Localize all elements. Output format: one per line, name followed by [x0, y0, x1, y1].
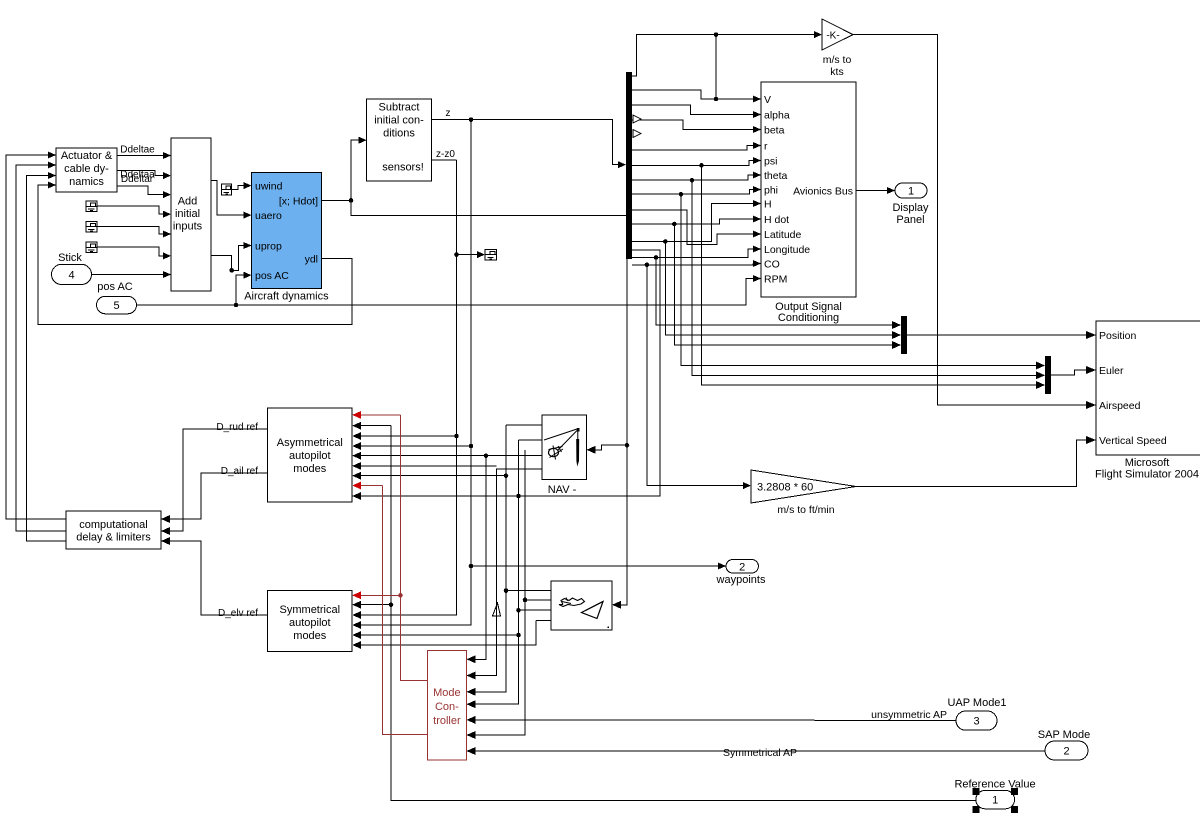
svg-text:waypoints: waypoints: [716, 574, 766, 586]
svg-text:Panel: Panel: [896, 214, 924, 226]
svg-text:Stick: Stick: [58, 252, 82, 264]
svg-text:Add: Add: [178, 196, 198, 208]
svg-text:troller: troller: [433, 715, 461, 727]
svg-text:phi: phi: [764, 185, 778, 197]
svg-text:Latitude: Latitude: [764, 229, 802, 241]
svg-text:pos AC: pos AC: [97, 281, 133, 293]
svg-text:1: 1: [908, 186, 914, 198]
svg-text:1: 1: [992, 795, 998, 807]
svg-text:alpha: alpha: [764, 110, 790, 122]
svg-text:Actuator &: Actuator &: [61, 150, 113, 162]
svg-text:z-z0: z-z0: [436, 149, 455, 160]
svg-text:theta: theta: [764, 170, 788, 182]
svg-text:D_rud ref: D_rud ref: [216, 422, 258, 433]
svg-text:D_ail ref: D_ail ref: [221, 466, 258, 477]
svg-text:psi: psi: [764, 156, 777, 168]
svg-text:Ddeltae: Ddeltae: [120, 145, 155, 156]
svg-text:Flight Simulator 2004: Flight Simulator 2004: [1095, 469, 1199, 481]
svg-text:SAP Mode: SAP Mode: [1038, 729, 1090, 741]
svg-text:autopilot: autopilot: [289, 450, 331, 462]
svg-text:m/s to ft/min: m/s to ft/min: [777, 504, 834, 516]
svg-text:r: r: [764, 141, 768, 153]
svg-text:Position: Position: [1099, 330, 1137, 342]
svg-text:H: H: [764, 199, 772, 211]
svg-text:2: 2: [1063, 746, 1069, 758]
svg-text:H dot: H dot: [764, 214, 789, 226]
svg-text:Symmetrical: Symmetrical: [280, 604, 341, 616]
svg-text:D_elv ref: D_elv ref: [218, 608, 258, 619]
svg-text:NAV -: NAV -: [548, 484, 577, 496]
svg-text:uwind: uwind: [255, 181, 283, 193]
svg-text:autopilot: autopilot: [289, 617, 331, 629]
svg-text:kts: kts: [830, 66, 843, 78]
svg-text:UAP Mode1: UAP Mode1: [947, 697, 1006, 709]
svg-text:m/s to: m/s to: [823, 54, 852, 66]
svg-text:CO: CO: [764, 259, 780, 271]
svg-text:Airspeed: Airspeed: [1099, 400, 1141, 412]
svg-text:3.2808 * 60: 3.2808 * 60: [757, 482, 813, 494]
svg-text:RPM: RPM: [764, 274, 787, 286]
svg-text:5: 5: [113, 300, 119, 312]
svg-text:Conditioning: Conditioning: [778, 312, 839, 324]
svg-text:Display: Display: [892, 202, 929, 214]
svg-text:Con-: Con-: [435, 701, 459, 713]
svg-text:-K-: -K-: [826, 31, 839, 42]
svg-text:Subtract: Subtract: [379, 102, 420, 114]
svg-text:Avionics Bus: Avionics Bus: [793, 186, 853, 198]
svg-text:delay & limiters: delay & limiters: [76, 532, 151, 544]
svg-text:pos AC: pos AC: [255, 270, 289, 282]
svg-text:initial: initial: [175, 208, 200, 220]
svg-text:Mode: Mode: [433, 687, 461, 699]
svg-text:ditions: ditions: [383, 128, 415, 140]
svg-text:3: 3: [973, 716, 979, 728]
svg-text:Symmetrical AP: Symmetrical AP: [723, 747, 797, 759]
svg-text:sensors!: sensors!: [382, 162, 424, 174]
svg-text:inputs: inputs: [173, 221, 203, 233]
svg-text:namics: namics: [69, 176, 104, 188]
svg-text:V: V: [764, 94, 771, 106]
svg-text:computational: computational: [79, 519, 148, 531]
svg-text:uprop: uprop: [255, 241, 282, 253]
svg-text:z: z: [446, 108, 451, 119]
svg-text:Asymmetrical: Asymmetrical: [277, 437, 343, 449]
svg-text:Reference Value: Reference Value: [954, 779, 1035, 791]
svg-text:initial con-: initial con-: [374, 115, 424, 127]
svg-text:4: 4: [68, 269, 74, 281]
svg-text:unsymmetric AP: unsymmetric AP: [871, 709, 947, 721]
svg-text:[x; Hdot]: [x; Hdot]: [279, 196, 318, 208]
svg-text:Longitude: Longitude: [764, 244, 810, 256]
svg-text:beta: beta: [764, 125, 785, 137]
svg-text:modes: modes: [293, 630, 327, 642]
svg-text:Ddeltar: Ddeltar: [121, 174, 154, 185]
svg-text:uaero: uaero: [255, 210, 282, 222]
svg-text:modes: modes: [293, 463, 327, 475]
svg-text:cable dy-: cable dy-: [64, 163, 109, 175]
svg-text:Aircraft dynamics: Aircraft dynamics: [244, 291, 329, 303]
svg-text:Euler: Euler: [1099, 365, 1124, 377]
svg-text:ydl: ydl: [305, 254, 318, 266]
svg-text:2: 2: [739, 561, 745, 573]
svg-text:Vertical Speed: Vertical Speed: [1099, 435, 1167, 447]
svg-text:Microsoft: Microsoft: [1125, 457, 1170, 469]
